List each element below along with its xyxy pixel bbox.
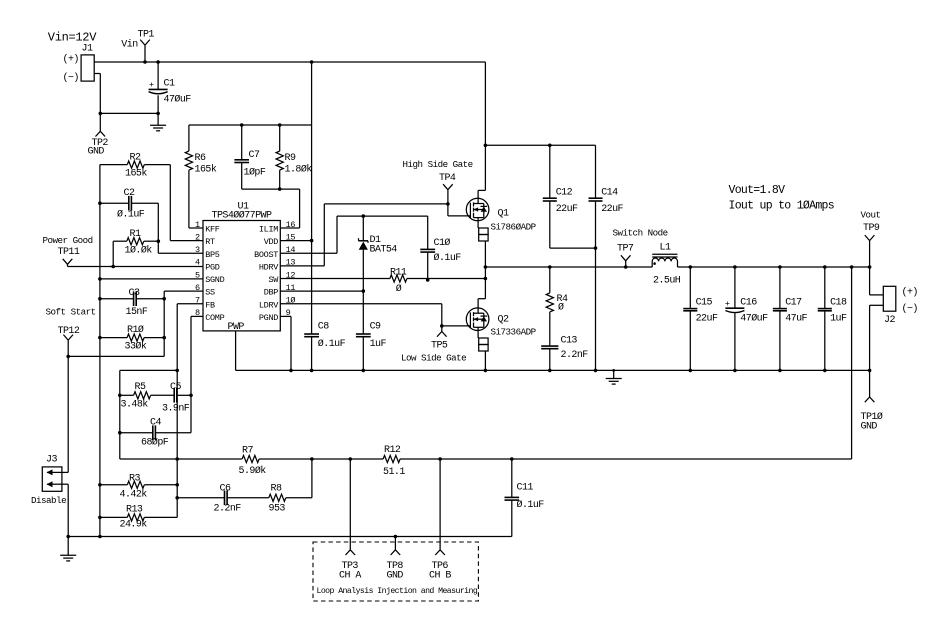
svg-text:High Side Gate: High Side Gate xyxy=(403,159,473,170)
svg-text:Ø: Ø xyxy=(396,283,402,295)
annotation Vout=1.8V xyxy=(729,184,834,213)
svg-text:Ø.1uF: Ø.1uF xyxy=(117,209,145,221)
wire PWP pad to ground rail xyxy=(236,331,291,371)
capacitor C3 15nF xyxy=(100,288,164,318)
svg-text:R13: R13 xyxy=(126,505,143,516)
svg-text:BAT54: BAT54 xyxy=(370,245,398,256)
junction C12 bottom on C14 line xyxy=(594,246,598,250)
junction R3 left on bus xyxy=(98,483,102,487)
wire R6/C7/R9 top bus xyxy=(189,124,312,126)
Q2 source pads xyxy=(479,338,488,370)
capacitor C16 470uF xyxy=(725,267,768,370)
wire Vout sense vertical x=851 xyxy=(851,267,853,459)
junction C1 top on VIN rail xyxy=(156,60,160,64)
svg-text:953: 953 xyxy=(269,504,286,515)
svg-text:5.9Øk: 5.9Øk xyxy=(239,465,267,477)
resistor R9 1.80k xyxy=(276,125,312,189)
capacitor C6 2.2nF xyxy=(177,484,269,515)
svg-text:C16: C16 xyxy=(740,298,757,309)
capacitor C18 1uF xyxy=(818,267,847,370)
junction TP9/J2 on output rail xyxy=(868,265,872,269)
wire SGND bus xyxy=(99,165,101,537)
svg-text:R3: R3 xyxy=(129,474,140,485)
resistor R13 24.9k xyxy=(100,505,177,531)
svg-text:2.2nF: 2.2nF xyxy=(214,504,242,515)
svg-text:LDRV: LDRV xyxy=(259,300,279,310)
wire R7/R12 feedback rail xyxy=(120,458,852,460)
junction R1 left on PGD xyxy=(111,265,115,269)
test point TP9 Vout xyxy=(861,210,881,268)
junction TP7 on rail xyxy=(624,265,628,269)
svg-text:Vin: Vin xyxy=(121,39,138,51)
svg-text:1: 1 xyxy=(195,220,200,230)
svg-text:22uF: 22uF xyxy=(601,204,623,215)
wire VIN rail xyxy=(94,61,485,63)
svg-text:VDD: VDD xyxy=(264,237,279,247)
junction FB comp branch xyxy=(175,369,179,373)
svg-text:CH B: CH B xyxy=(429,571,451,582)
capacitor C1 470uF xyxy=(149,62,192,113)
junction TP8 on bottom rail xyxy=(394,535,398,539)
capacitor C17 47uF xyxy=(773,267,808,370)
svg-text:CH A: CH A xyxy=(339,571,361,582)
svg-text:C15: C15 xyxy=(696,298,713,309)
svg-text:Q1: Q1 xyxy=(498,209,509,220)
junction R9 top xyxy=(278,123,282,127)
junction C17 top/bottom xyxy=(778,265,782,269)
junction TP4 on gate wire xyxy=(446,202,450,206)
transistor Q2 Si7336ADP xyxy=(466,267,489,338)
resistor R1 10.0k xyxy=(113,229,158,257)
svg-text:TPS4ØØ77PWP: TPS4ØØ77PWP xyxy=(212,210,273,222)
wire ILIM pin16 xyxy=(280,189,300,228)
svg-text:2.2nF: 2.2nF xyxy=(561,350,589,361)
test point TP7 xyxy=(617,244,634,268)
wire COMP pin8 net xyxy=(191,316,203,432)
test point TP10 GND xyxy=(861,370,883,432)
svg-text:C3: C3 xyxy=(129,288,140,299)
capacitor C14 22uF xyxy=(589,145,624,370)
svg-text:R9: R9 xyxy=(285,153,296,164)
resistor R2 165k xyxy=(100,153,170,180)
svg-text:Vout=1.8V: Vout=1.8V xyxy=(729,184,786,197)
capacitor C10 0.1uF xyxy=(420,216,461,280)
svg-text:47ØuF: 47ØuF xyxy=(164,94,192,106)
svg-text:(−): (−) xyxy=(902,303,918,315)
svg-text:KFF: KFF xyxy=(205,225,220,235)
svg-text:TP9: TP9 xyxy=(863,223,880,234)
test point TP3 CH A xyxy=(339,459,361,582)
connector J2 xyxy=(870,267,918,370)
svg-text:R11: R11 xyxy=(390,268,407,279)
svg-text:Soft Start: Soft Start xyxy=(46,307,96,318)
junction C1 bottom xyxy=(156,112,160,116)
svg-text:BOOST: BOOST xyxy=(254,250,278,260)
junction SW wire on Q1/Q2 vertical xyxy=(484,277,488,281)
svg-text:33Øk: 33Øk xyxy=(125,341,147,353)
svg-text:Power Good: Power Good xyxy=(43,235,93,246)
svg-text:BP5: BP5 xyxy=(205,250,220,260)
capacitor C4 680pF xyxy=(120,418,191,449)
svg-text:C1: C1 xyxy=(164,79,175,90)
svg-text:R12: R12 xyxy=(384,445,401,456)
svg-text:TP12: TP12 xyxy=(58,326,80,337)
svg-text:C18: C18 xyxy=(830,298,847,309)
junction C14 on ground rail xyxy=(594,369,598,373)
capacitor C2 0.1uF xyxy=(100,188,158,221)
resistor R3 4.42k xyxy=(100,474,177,501)
resistor R8 953 xyxy=(269,459,312,515)
test point TP11 xyxy=(58,247,80,267)
resistor R4 0 xyxy=(546,267,568,346)
resistor R12 51.1 xyxy=(383,445,405,478)
wire PGD pin4 xyxy=(68,266,204,268)
junction C10 on SW wire xyxy=(426,278,430,282)
svg-text:R2: R2 xyxy=(130,153,141,164)
junction TP12/J3 on SS wire xyxy=(66,355,70,359)
junction C2 left on SGND bus xyxy=(98,201,102,205)
diode D1 BAT54 xyxy=(359,216,398,291)
J3 pin arrows xyxy=(47,471,62,473)
wire VDD net vertical xyxy=(311,62,313,334)
junction C4 left xyxy=(118,431,122,435)
svg-text:J3: J3 xyxy=(46,455,57,466)
svg-text:R1Ø: R1Ø xyxy=(127,324,144,336)
svg-text:TP11: TP11 xyxy=(58,247,80,258)
svg-text:1Ø.Øk: 1Ø.Øk xyxy=(125,245,153,257)
junction C9 on ground rail xyxy=(362,369,366,373)
svg-text:PGND: PGND xyxy=(259,313,278,323)
capacitor C5 3.9nF xyxy=(162,382,191,415)
svg-text:C2: C2 xyxy=(124,188,135,199)
test point TP4 xyxy=(439,173,456,204)
capacitor C12 22uF xyxy=(543,145,596,248)
junction R10 left on bus xyxy=(98,336,102,340)
junction ground stem xyxy=(612,369,615,372)
svg-text:(−): (−) xyxy=(63,72,79,84)
test point TP5 xyxy=(431,326,448,352)
junction C15 top/bottom xyxy=(689,265,693,269)
capacitor C8 0.1uF xyxy=(304,322,345,371)
svg-text:51.1: 51.1 xyxy=(383,467,405,478)
wire LDRV pin10 to Q2 gate xyxy=(280,304,470,326)
svg-text:22uF: 22uF xyxy=(696,314,718,325)
Q1 labels xyxy=(491,209,537,233)
svg-text:47ØuF: 47ØuF xyxy=(740,313,768,325)
wire switch node rail xyxy=(485,266,869,268)
junction VDD on VIN rail xyxy=(310,60,314,64)
capacitor C15 22uF xyxy=(683,267,718,370)
junction R3 right on FB xyxy=(175,483,179,487)
svg-text:C12: C12 xyxy=(556,188,573,199)
svg-text:Switch Node: Switch Node xyxy=(613,228,668,239)
wire HDRV pin13 to Q1 gate xyxy=(280,204,470,266)
svg-text:J1: J1 xyxy=(82,44,93,55)
svg-text:C17: C17 xyxy=(785,298,802,309)
junction Vout sense on output rail xyxy=(850,265,854,269)
svg-text:3.9nF: 3.9nF xyxy=(162,404,190,415)
wire PGND pin9 xyxy=(280,316,291,370)
junction TP5 on gate wire xyxy=(440,324,444,328)
junction TP3 on rail xyxy=(349,457,353,461)
svg-text:Vin=12V: Vin=12V xyxy=(48,31,97,45)
junction J2 minus on ground rail xyxy=(868,369,872,373)
svg-text:SW: SW xyxy=(268,275,279,285)
wire BP5 pin3 xyxy=(158,203,203,253)
svg-text:C14: C14 xyxy=(601,188,618,199)
wire VDD pin15 stub xyxy=(280,240,311,242)
ground under J3 rail xyxy=(67,537,69,556)
svg-text:4.42k: 4.42k xyxy=(120,489,148,501)
wire J3 pin1 to SS xyxy=(62,356,68,472)
junction FB on R7 rail xyxy=(175,457,179,461)
svg-text:Q2: Q2 xyxy=(498,315,509,326)
svg-text:1uF: 1uF xyxy=(370,339,387,350)
svg-text:68ØpF: 68ØpF xyxy=(141,437,169,449)
node Loop Analysis dashed box xyxy=(313,542,478,601)
wire R1 left to PGD xyxy=(112,241,114,266)
wire DBP pin11 xyxy=(280,290,363,292)
svg-text:C5: C5 xyxy=(170,382,181,393)
svg-text:SS: SS xyxy=(205,288,215,298)
junction J3 on bottom rail xyxy=(66,535,70,539)
svg-text:PGD: PGD xyxy=(205,263,220,273)
junction TP1 on VIN rail xyxy=(143,60,147,64)
junction J1- / TP2 xyxy=(99,112,103,116)
capacitor C13 2.2nF xyxy=(541,336,588,371)
wire J1 minus lead xyxy=(94,74,158,114)
svg-text:R5: R5 xyxy=(135,382,146,393)
svg-text:Disable: Disable xyxy=(31,495,66,506)
wire SGND pin5 xyxy=(100,278,203,280)
svg-text:1uF: 1uF xyxy=(830,314,847,325)
svg-text:Iout up to 1ØAmps: Iout up to 1ØAmps xyxy=(729,200,834,213)
svg-text:C9: C9 xyxy=(370,322,381,333)
connector J3 Disable xyxy=(31,455,66,506)
svg-text:2.5uH: 2.5uH xyxy=(653,276,681,287)
junction C7 top xyxy=(240,123,244,127)
svg-text:165k: 165k xyxy=(125,168,147,180)
svg-text:Low Side Gate: Low Side Gate xyxy=(401,353,466,364)
wire J3 pin2 to ground rail xyxy=(62,484,68,536)
test point TP8 GND xyxy=(387,537,404,582)
svg-text:TP1: TP1 xyxy=(138,30,155,41)
svg-text:L1: L1 xyxy=(660,243,671,254)
svg-text:GND: GND xyxy=(387,571,404,582)
capacitor C11 0.1uF xyxy=(505,459,545,537)
svg-text:22uF: 22uF xyxy=(556,204,578,215)
svg-text:FB: FB xyxy=(205,300,215,310)
svg-text:Si786ØADP: Si786ØADP xyxy=(491,222,537,233)
svg-text:15: 15 xyxy=(286,232,296,242)
junction R4 on switch rail xyxy=(548,265,552,269)
svg-text:TP4: TP4 xyxy=(439,173,456,184)
svg-text:Ø.1uF: Ø.1uF xyxy=(318,338,346,350)
svg-text:C8: C8 xyxy=(318,322,329,333)
junction C8 on ground rail xyxy=(310,369,314,373)
wire KFF pin1 xyxy=(189,227,203,229)
svg-text:C6: C6 xyxy=(220,484,231,495)
svg-text:+: + xyxy=(725,299,730,309)
svg-text:47uF: 47uF xyxy=(785,314,807,325)
svg-text:R6: R6 xyxy=(195,153,206,164)
junction C12 top xyxy=(548,144,552,148)
svg-text:GND: GND xyxy=(88,147,105,158)
svg-text:3.48k: 3.48k xyxy=(121,399,149,411)
junction C16 top/bottom xyxy=(733,265,737,269)
svg-text:1ØpF: 1ØpF xyxy=(244,167,266,179)
capacitor C9 1uF xyxy=(356,291,387,370)
Q2 labels xyxy=(491,315,537,338)
junction D1 cathode on BOOST xyxy=(362,214,366,218)
svg-text:Vout: Vout xyxy=(861,210,881,221)
svg-text:TP5: TP5 xyxy=(431,341,448,352)
junction C6 line on FB vertical xyxy=(175,496,179,500)
junction R1 right on BP5 xyxy=(157,239,161,243)
svg-text:Ø.1uF: Ø.1uF xyxy=(434,252,462,264)
wire power ground rail xyxy=(291,369,870,371)
svg-text:15nF: 15nF xyxy=(126,307,148,318)
svg-text:R8: R8 xyxy=(271,484,282,495)
junction Q2 source on ground rail xyxy=(484,369,488,373)
junction R10 right on SS xyxy=(162,336,166,340)
svg-text:SGND: SGND xyxy=(205,275,224,285)
svg-text:Ø: Ø xyxy=(558,302,564,314)
svg-text:DBP: DBP xyxy=(264,288,279,298)
ground on power rail xyxy=(606,370,622,384)
Q1 source pads xyxy=(479,228,488,267)
connector J1 xyxy=(63,44,95,84)
test point TP2 GND xyxy=(88,113,109,157)
junction C3 left on bus xyxy=(98,297,102,301)
junction D1 anode on DBP xyxy=(362,289,366,293)
junction SGND on bus xyxy=(98,277,102,281)
capacitor C7 10pF xyxy=(234,125,279,189)
test point TP12 xyxy=(58,326,80,356)
svg-text:Loop Analysis Injection and Me: Loop Analysis Injection and Measuring xyxy=(317,586,478,596)
op-amp U1 TPS40077PWP controller xyxy=(195,202,295,334)
svg-text:24.9k: 24.9k xyxy=(120,519,148,531)
svg-text:HDRV: HDRV xyxy=(259,263,279,273)
svg-text:16: 16 xyxy=(286,220,296,230)
wire SW pin12 xyxy=(280,278,485,280)
svg-text:C4: C4 xyxy=(150,418,161,429)
wire FB divider vertical xyxy=(176,459,178,517)
svg-text:Ø.1uF: Ø.1uF xyxy=(517,499,545,511)
junction switch rail at Q1/Q2 xyxy=(484,265,488,269)
junction R13 left on bus xyxy=(98,516,102,520)
ground under C1 xyxy=(150,113,166,130)
junction VDD pin 15 xyxy=(310,239,314,243)
svg-text:ILIM: ILIM xyxy=(259,225,278,235)
svg-text:C7: C7 xyxy=(249,150,260,161)
wire BOOST pin14 net xyxy=(280,216,427,253)
resistor R11 0 xyxy=(390,268,407,296)
junction R9/C7 bottom xyxy=(278,187,282,191)
junction C11 on rail xyxy=(510,457,514,461)
wire RT pin2 xyxy=(170,165,203,241)
svg-text:GND: GND xyxy=(861,422,878,433)
svg-text:RT: RT xyxy=(205,237,215,247)
wire SS pin6 net xyxy=(68,291,203,356)
wire C12/C14 top (VIN) xyxy=(485,144,595,146)
resistor R5 3.48k xyxy=(120,382,174,411)
svg-text:Si7336ADP: Si7336ADP xyxy=(491,327,537,338)
junction SGND bus on bottom rail xyxy=(98,535,102,539)
inductor L1 2.5uH xyxy=(652,243,681,287)
svg-text:+: + xyxy=(149,80,154,90)
svg-text:(+): (+) xyxy=(63,54,79,66)
junction C13 on ground rail xyxy=(548,369,552,373)
svg-text:C13: C13 xyxy=(561,336,578,347)
wire bottom ground rail xyxy=(68,536,512,538)
svg-text:(+): (+) xyxy=(902,287,918,299)
svg-text:165k: 165k xyxy=(195,164,217,176)
resistor R7 5.90k xyxy=(239,446,267,478)
svg-text:R7: R7 xyxy=(242,446,253,457)
junction R5C5 on COMP xyxy=(189,394,193,398)
test point TP6 CH B xyxy=(429,459,451,582)
svg-text:C11: C11 xyxy=(517,483,534,494)
junction R5 left xyxy=(118,394,122,398)
svg-text:R1: R1 xyxy=(130,229,141,240)
svg-text:1.8Øk: 1.8Øk xyxy=(285,164,313,176)
junction top bus on Q1 drain xyxy=(484,144,488,148)
svg-text:TP7: TP7 xyxy=(617,244,634,255)
svg-text:C1Ø: C1Ø xyxy=(434,237,451,249)
resistor R10 330k xyxy=(100,324,164,353)
junction TP6 on rail xyxy=(438,457,442,461)
wire FB pin7 net xyxy=(120,304,203,459)
resistor R6 165k xyxy=(185,125,217,228)
svg-text:J2: J2 xyxy=(884,315,895,326)
transistor Q1 Si7860ADP xyxy=(466,62,489,228)
junction C18 top/bottom xyxy=(823,265,827,269)
junction PGND on ground rail xyxy=(289,369,293,373)
svg-text:COMP: COMP xyxy=(205,313,224,323)
test point TP1 Vin xyxy=(121,30,154,63)
junction C3 right on SS xyxy=(162,297,166,301)
junction R8 top on rail xyxy=(310,457,314,461)
